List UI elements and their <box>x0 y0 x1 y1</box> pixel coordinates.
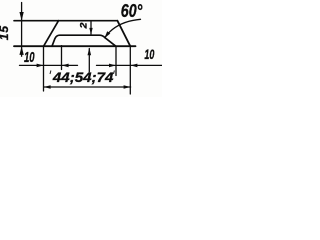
extension line x=61.5 <box>61 46 63 70</box>
arrowhead 2, pointing down <box>89 28 92 35</box>
arrowhead 15 top, pointing down <box>19 12 23 21</box>
arrowhead 44;54;74 left, pointing left <box>44 85 51 89</box>
dimension 2 vertical line <box>90 21 92 34</box>
arrowhead 44;54;74 right, pointing right <box>124 85 131 89</box>
prime mark after 74 <box>113 71 116 75</box>
extension line left corner x=43.5 <box>43 46 45 91</box>
60 deg leader arc <box>105 19 141 37</box>
part left slant edge <box>44 21 59 47</box>
extension line right corner x=130.3 <box>129 46 131 94</box>
prime mark before 44 <box>49 71 52 75</box>
extension line x=116 <box>115 46 117 75</box>
arrowhead 10-right inner, pointing right <box>109 64 116 68</box>
part bottom edge with extensions <box>14 45 136 47</box>
dimension line 44;54;74 <box>44 86 131 88</box>
svg-text:10: 10 <box>24 50 35 66</box>
arrowhead 60 deg leader, pointing down-left <box>104 31 110 38</box>
dimension line for the two 10s, right segment <box>97 64 163 66</box>
arrowhead up at bottom edge x=88 <box>88 48 92 56</box>
part right slant edge (60 deg) <box>117 21 130 47</box>
vertical leader arrow line at x=88 <box>88 49 90 72</box>
arrowhead 10-left inner, pointing left <box>62 64 69 68</box>
svg-text:44;54;74: 44;54;74 <box>52 69 114 85</box>
arrowhead 15 bottom, pointing up <box>19 46 23 55</box>
inner weld bead outline <box>52 35 116 46</box>
svg-text:10: 10 <box>144 46 154 62</box>
svg-text:15: 15 <box>0 25 11 40</box>
part top edge with left extension <box>14 20 117 22</box>
arrowhead 10-left outer, pointing right <box>37 64 44 68</box>
dimension line for the two 10s, left segment <box>20 64 78 66</box>
svg-text:60°: 60° <box>121 1 143 21</box>
arrowhead 10-right outer, pointing left <box>131 64 138 68</box>
dimension 15 vertical line <box>21 3 23 57</box>
svg-text:2: 2 <box>79 23 89 30</box>
